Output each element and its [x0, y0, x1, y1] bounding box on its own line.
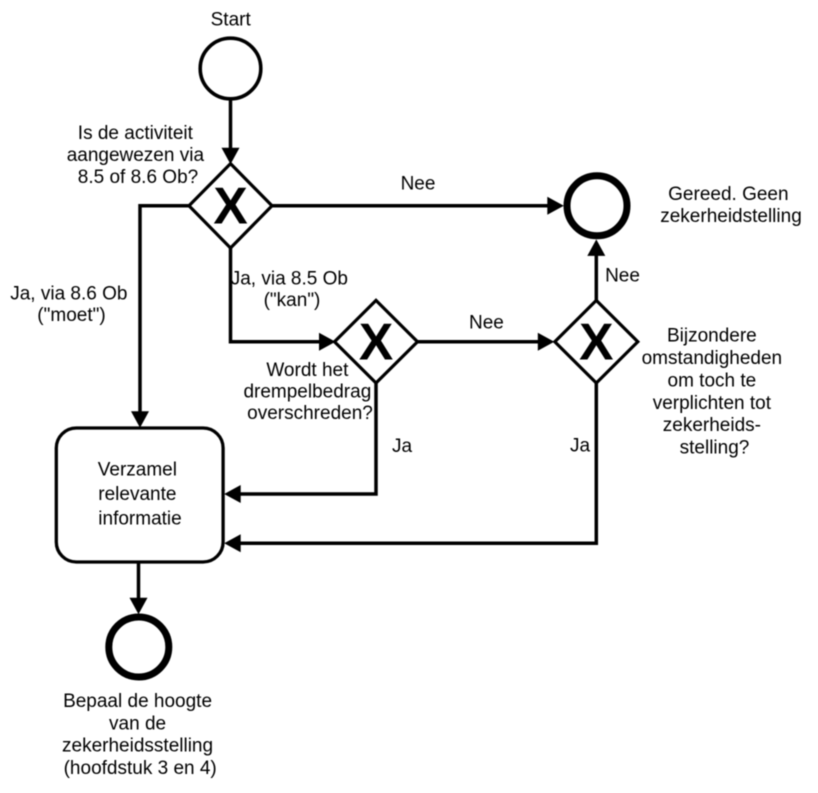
end event circle: Bepaal [109, 617, 169, 677]
svg-text:Ja: Ja [392, 436, 413, 457]
wire: gateway 2 to task (Ja) [224, 383, 376, 503]
start event circle [200, 38, 261, 99]
svg-text:Gereed. Geen zekerheidstel: Gereed. Geen zekerheidstelling [660, 184, 802, 227]
end event circle: Gereed [567, 176, 627, 236]
svg-text:Verzamel relevante: Verzamel relevante informatie [98, 460, 182, 530]
svg-text:X: X [579, 312, 613, 370]
gateway U3 (XOR) [555, 300, 638, 383]
svg-text:Is de activiteit aangeweze: Is de activiteit aangewezen via 8.5 of 8… [67, 123, 210, 188]
wire: gateway 2 to gateway 3 (Nee) [418, 333, 555, 351]
svg-text:X: X [213, 177, 247, 235]
wire: gateway 1 to task (Ja, via 8.6 Ob) [131, 206, 189, 428]
svg-text:Start: Start [211, 9, 252, 30]
wire: gateway 1 to gateway 2 (Ja, via 8.5 Ob) [231, 248, 336, 351]
task: Verzamel relevante informatie [56, 428, 223, 562]
svg-text:Ja: Ja [570, 436, 591, 457]
wire: gateway 3 to end event (Nee, up) [587, 239, 605, 300]
svg-text:Nee: Nee [469, 312, 504, 333]
wire: gateway 3 to task (Ja) [224, 383, 596, 552]
svg-text:Bepaal de hoogte van de: Bepaal de hoogte van de zekerheidsstelli… [62, 691, 218, 779]
wire: gateway 1 to end event (Nee) [272, 197, 564, 215]
gateway U2 (XOR) [335, 300, 418, 383]
gateway U1 (XOR) [189, 164, 272, 248]
svg-text:Nee: Nee [605, 266, 640, 287]
wire: task to end event 2 [130, 562, 148, 614]
svg-text:X: X [359, 312, 393, 370]
svg-text:Nee: Nee [401, 174, 436, 195]
wire: start event to gateway 1 [222, 100, 240, 164]
